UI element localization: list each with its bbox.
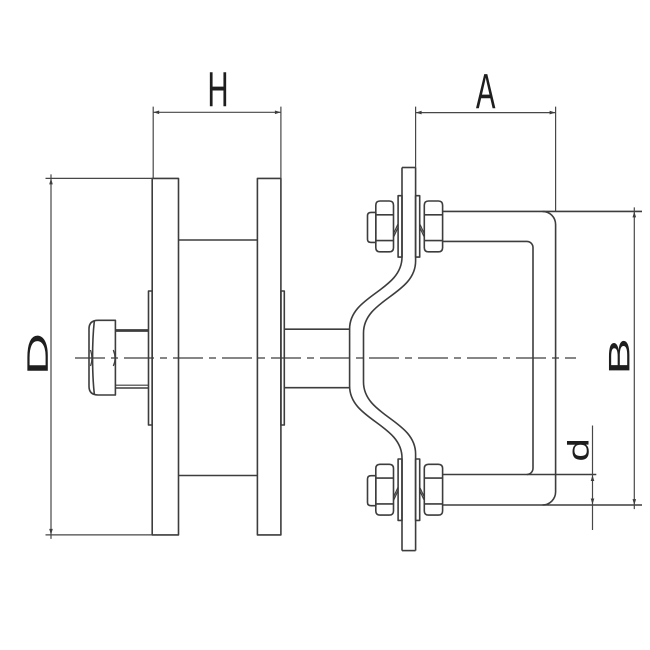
U-bolt inner contour: [443, 241, 533, 474]
omega bracket plate top edge: [402, 167, 416, 169]
centerline (dash-dot axis): [75, 357, 576, 359]
top rod tip: [368, 212, 376, 242]
bottom left nut: [376, 464, 394, 515]
dimension H extension lines: [153, 107, 281, 179]
U-bolt outer right contour: [543, 211, 556, 505]
bottom right spring washer split: [420, 487, 425, 500]
dimension A extension lines: [416, 107, 556, 212]
label d: [567, 441, 589, 460]
dimension D extension lines: [46, 178, 153, 535]
bottom left spring washer split: [394, 487, 399, 500]
arrowheads B: [633, 211, 637, 217]
U-bolt bottom rod bottom edge + B bottom extension line: [443, 504, 642, 506]
U-bolt top rod top edge + B top extension line: [443, 210, 642, 212]
bolt shaft outer lines: [115, 387, 148, 389]
dimension H line: [153, 111, 281, 113]
top left flat washer: [398, 196, 402, 257]
label D: [27, 336, 47, 371]
left flange of pulley: [152, 178, 178, 535]
omega bracket plate bottom edge: [402, 550, 416, 552]
right flange of pulley: [257, 178, 281, 535]
left washer plate: [149, 291, 153, 425]
arrowheads H: [153, 111, 159, 115]
arrowheads A: [416, 111, 422, 115]
axle between pulley and bracket: [284, 329, 349, 388]
bottom rod tip: [368, 476, 376, 506]
label B: [609, 341, 629, 371]
top right nut: [424, 201, 442, 252]
bolt shaft thread lines: [115, 384, 148, 386]
top right flat washer: [416, 196, 420, 257]
omega bracket plate right edge: [364, 168, 416, 551]
U-bolt bottom rod top edge + d extension line: [443, 474, 597, 476]
dimension B line: [633, 207, 635, 509]
arrowheads D: [49, 178, 53, 184]
bottom right nut: [424, 464, 442, 515]
bottom left flat washer: [398, 459, 402, 520]
bolt head facet arcs: [113, 350, 115, 366]
bolt head: [89, 320, 115, 395]
arrowheads d: [591, 475, 595, 481]
bottom right flat washer: [416, 459, 420, 520]
bolt shaft top edge (merged pair): [115, 329, 148, 332]
top left spring washer split: [394, 224, 399, 237]
hub top edge: [179, 239, 258, 241]
hub bottom edge: [179, 475, 258, 477]
dimension d line: [592, 426, 594, 531]
dimension A line: [416, 112, 556, 114]
label A: [476, 74, 495, 108]
dimension D line: [50, 174, 52, 539]
top right spring washer split: [420, 224, 425, 237]
top left nut: [376, 201, 394, 252]
omega bracket plate left edge: [350, 168, 402, 551]
bolt head chamfer line: [93, 321, 95, 394]
label H: [210, 72, 226, 106]
right washer plate: [281, 291, 284, 425]
